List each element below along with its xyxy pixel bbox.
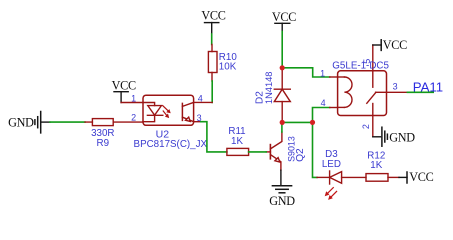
- wire GND to R9: [50, 121, 85, 123]
- svg-text:LED: LED: [322, 159, 341, 170]
- svg-text:3: 3: [393, 82, 398, 92]
- ground (below Q2): [272, 186, 291, 193]
- resistor R12: [366, 174, 399, 182]
- wire VCC to R10: [211, 34, 213, 45]
- power port VCC (top of D2): [272, 10, 296, 32]
- wire node C down to D3: [313, 122, 318, 177]
- svg-text:VCC: VCC: [383, 38, 407, 52]
- node A junction: [280, 65, 285, 70]
- wire Q2 emitter to GND: [280, 170, 282, 186]
- diode D3 LED: [317, 171, 366, 184]
- svg-text:1: 1: [320, 68, 325, 78]
- power port VCC (top of R10): [201, 8, 225, 34]
- svg-text:GND: GND: [269, 194, 295, 208]
- svg-text:GND: GND: [389, 130, 415, 144]
- LED emission arrows: [328, 188, 337, 198]
- wire node B to node C: [282, 121, 312, 123]
- svg-text:VCC: VCC: [272, 10, 296, 24]
- op-amp U2 optocoupler BPC817S(C)_JX: [143, 95, 194, 125]
- relay coil: [338, 77, 352, 107]
- power port GND (relay pin2): [373, 127, 415, 146]
- svg-text:1: 1: [131, 94, 136, 104]
- resistor R10: [208, 45, 217, 82]
- svg-text:VCC: VCC: [112, 78, 136, 92]
- relay pin stubs: [330, 45, 408, 137]
- svg-text:1N4148: 1N4148: [264, 72, 274, 105]
- power port VCC (right of R12): [399, 170, 434, 184]
- resistor R9: [85, 119, 143, 126]
- opto pin stubs: [194, 101, 213, 103]
- svg-text:4: 4: [198, 94, 203, 104]
- diode D2 1N4148: [274, 68, 290, 123]
- wire opto pin3 to R11: [201, 122, 227, 152]
- wire VCC to opto pin1: [121, 102, 143, 104]
- wire R10 to opto pin4: [211, 81, 213, 102]
- svg-text:1K: 1K: [370, 160, 382, 171]
- opto internal phototransistor: [181, 103, 183, 120]
- svg-text:VCC: VCC: [409, 170, 433, 184]
- node C junction: [310, 120, 315, 125]
- node B junction: [280, 120, 285, 125]
- svg-text:10K: 10K: [219, 62, 237, 73]
- wire R11 to Q2 base: [249, 151, 267, 153]
- wire node C to relay pin4: [313, 108, 330, 123]
- wire relay pin3 to PA11: [407, 91, 433, 93]
- relay G5LE-1-DC5: [338, 71, 387, 116]
- power port VCC (relay pin5): [373, 38, 407, 52]
- power port GND (left): [8, 112, 50, 133]
- svg-text:2: 2: [131, 113, 136, 123]
- relay switch: [367, 71, 387, 116]
- svg-text:GND: GND: [8, 115, 34, 129]
- svg-text:4: 4: [321, 98, 326, 108]
- svg-text:2: 2: [361, 124, 371, 129]
- svg-text:PA11: PA11: [413, 79, 443, 94]
- power port VCC (opto pin1): [112, 78, 136, 102]
- opto internal LED: [143, 103, 163, 122]
- wire VCC to node A: [281, 32, 283, 68]
- opto light arrows: [163, 106, 169, 117]
- svg-text:VCC: VCC: [201, 8, 225, 22]
- svg-text:1K: 1K: [231, 136, 243, 147]
- resistor R11: [227, 148, 271, 155]
- svg-text:BPC817S(C)_JX: BPC817S(C)_JX: [134, 139, 208, 150]
- wire Q2 collector up: [281, 122, 283, 132]
- svg-text:5: 5: [362, 59, 372, 64]
- transistor Q2 S9013: [269, 145, 271, 159]
- svg-text:Q2: Q2: [295, 148, 306, 162]
- svg-text:R9: R9: [97, 138, 110, 149]
- wire node A to relay pin1: [282, 68, 330, 77]
